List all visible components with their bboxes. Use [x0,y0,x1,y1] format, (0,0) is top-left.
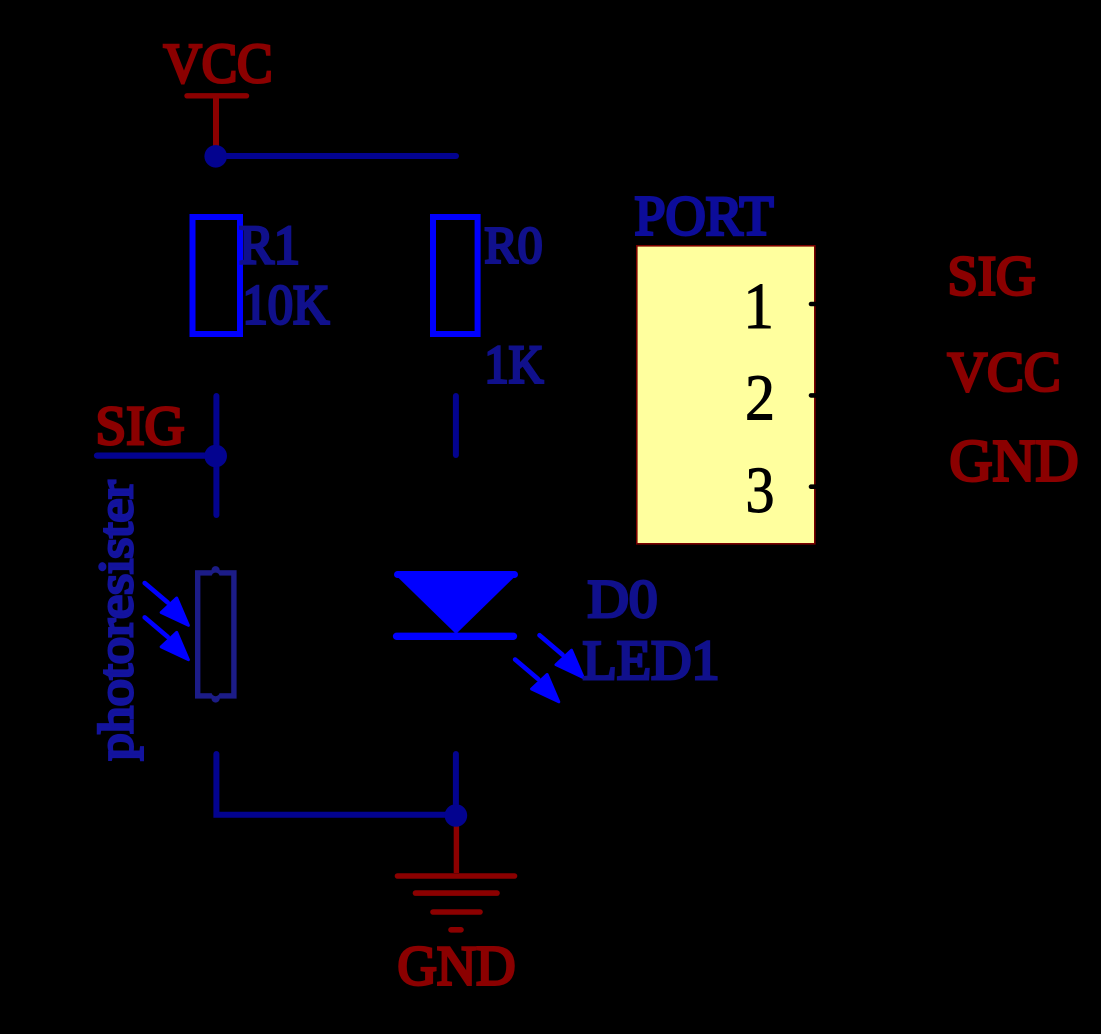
svg-text:photoresister: photoresister [88,481,143,761]
svg-text:D0: D0 [588,569,658,629]
svg-text:GND: GND [398,936,516,998]
svg-text:VCC: VCC [948,342,1061,404]
svg-text:LED1: LED1 [583,630,720,692]
svg-text:VCC: VCC [164,33,273,95]
svg-text:2: 2 [745,361,775,434]
svg-text:GND: GND [950,428,1079,494]
svg-text:PORT: PORT [635,186,774,248]
svg-text:1K: 1K [485,335,544,395]
svg-text:R0: R0 [485,218,543,275]
svg-text:R1: R1 [239,215,300,276]
svg-text:SIG: SIG [96,396,185,457]
svg-text:10K: 10K [243,275,330,337]
svg-text:SIG: SIG [948,246,1036,308]
svg-text:3: 3 [746,454,775,527]
svg-text:1: 1 [743,270,774,343]
